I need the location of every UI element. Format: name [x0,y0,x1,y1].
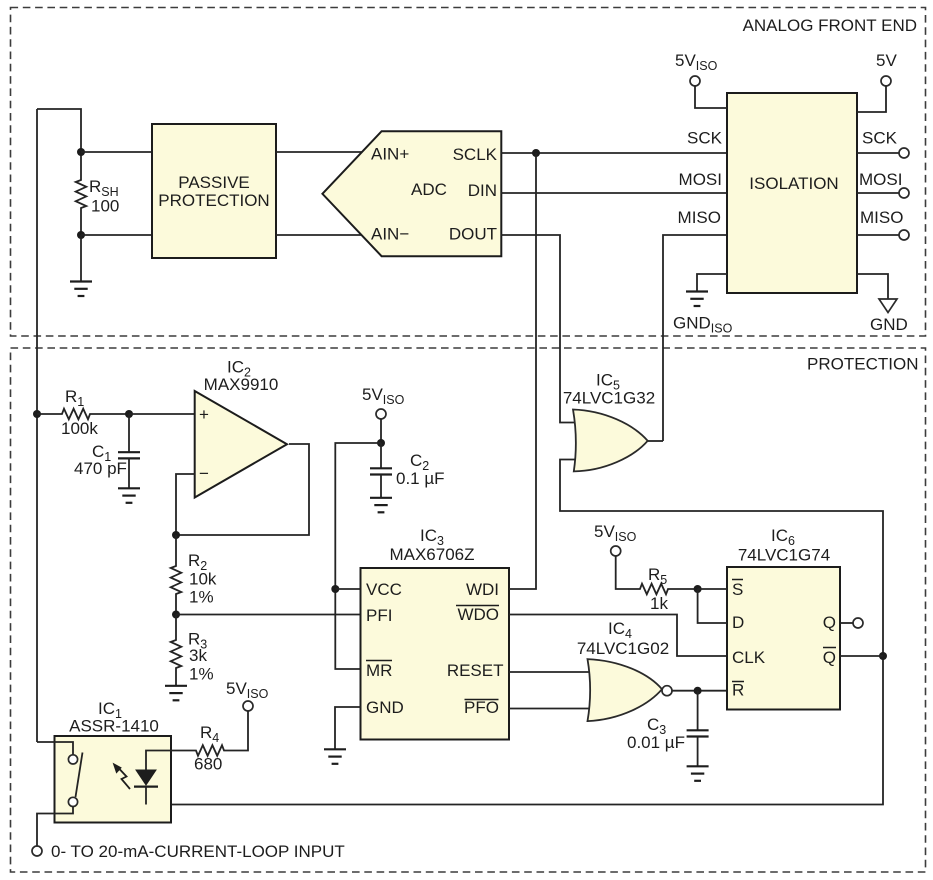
resistor R3 [171,615,182,686]
wire Q output [840,622,853,624]
svg-text:GND: GND [870,315,908,334]
wire to opamp + [129,413,195,415]
svg-text:PFO: PFO [464,698,499,717]
wire IC3 GND [335,707,361,749]
node NOR output [694,687,702,695]
svg-text:74LVC1G74: 74LVC1G74 [738,546,830,565]
capacitor C3 [697,691,699,730]
ground R3 [165,686,187,701]
svg-text:S: S [732,580,743,599]
node 5VISO C2 [377,439,385,447]
wire WDI up to SCLK [509,153,536,589]
svg-text:AIN−: AIN− [371,225,409,244]
op-amp IC2 MAX9910 [195,391,287,498]
svg-text:WDI: WDI [466,580,499,599]
svg-text:RESET: RESET [447,661,504,680]
wire PFO to NOR [509,708,593,710]
node R1 tap [33,410,41,418]
svg-text:PROTECTION: PROTECTION [158,191,269,210]
node feedback [172,531,180,539]
LED light arrow [119,768,131,789]
node R1 C1 opamp [125,410,133,418]
wire PFI [176,614,361,616]
ADC block U-ADC [322,131,501,256]
switch arm [76,753,83,798]
node SCLK WDI junction [532,149,540,157]
terminal current loop input [32,846,42,856]
wire RESET to NOR [509,671,593,673]
ground RSH [70,282,92,297]
wire to D pin [698,589,727,623]
svg-text:DOUT: DOUT [449,225,497,244]
svg-text:ASSR-1410: ASSR-1410 [69,717,159,736]
resistor R1 [37,409,129,420]
wire RSH top to passive protection [81,151,152,153]
resistor RSH [76,152,87,235]
wire NOR output to R pin [672,690,727,692]
node VCC branch [331,585,339,593]
ground GNDISO [686,292,708,307]
svg-text:Q: Q [823,648,836,667]
ground C3 [687,766,709,781]
resistor R2 [171,535,182,615]
svg-text:VCC: VCC [366,580,402,599]
svg-text:3k: 3k [189,646,207,665]
wire left rail into switch [37,742,73,755]
wire AIN- [276,234,362,236]
NOR output bubble [662,686,672,696]
wire left sense loop top [37,109,81,152]
svg-text:MAX9910: MAX9910 [204,375,279,394]
svg-text:100k: 100k [61,419,98,438]
svg-text:5V: 5V [876,51,897,70]
svg-text:SCK: SCK [862,129,898,148]
analog front end dashed frame [11,8,926,337]
svg-text:ADC: ADC [411,180,447,199]
wire MISO out [857,234,899,236]
node RSH top [77,148,85,156]
svg-text:0- TO 20-mA-CURRENT-LOOP INPUT: 0- TO 20-mA-CURRENT-LOOP INPUT [51,842,345,861]
wire left vertical rail [36,109,38,742]
wire VCC [335,588,360,590]
wire to S pin [698,588,727,590]
protection dashed frame [11,348,926,872]
wire 5VISO to isolation [695,86,727,108]
capacitor C1 [128,414,130,452]
svg-text:SCLK: SCLK [453,145,498,164]
node RSH bottom [77,231,85,239]
wire MOSI out [857,192,899,194]
switch contact top [68,755,77,764]
svg-text:WDO: WDO [457,605,499,624]
wire Qbar output [840,655,883,657]
svg-text:0.01 µF: 0.01 µF [627,733,685,752]
wire opamp output loop [176,444,309,535]
svg-text:0.1 µF: 0.1 µF [396,469,445,488]
svg-text:MISO: MISO [678,208,721,227]
svg-text:MOSI: MOSI [679,170,722,189]
wire WDO to CLK [509,615,727,657]
svg-text:MAX6706Z: MAX6706Z [389,545,474,564]
wire AIN+ [276,151,362,153]
ground C2 [370,498,392,513]
ground C1 [118,488,140,503]
wire RSH bottom to ground [80,235,82,281]
svg-text:MR: MR [366,661,392,680]
LED diode of IC1 [136,770,156,785]
svg-text:ISOLATION: ISOLATION [749,174,838,193]
svg-text:−: − [199,464,209,483]
svg-text:AIN+: AIN+ [371,145,409,164]
isolation block [727,93,857,293]
svg-text:+: + [199,405,209,424]
svg-text:680: 680 [194,755,222,774]
svg-text:PROTECTION: PROTECTION [807,355,918,374]
resistor R5 [616,556,698,595]
wire 5VISO to VCC and MR [335,443,381,669]
svg-text:DIN: DIN [468,181,497,200]
IC6 74LVC1G74 block [727,567,840,710]
svg-text:GND: GND [366,698,404,717]
svg-text:CLK: CLK [732,648,766,667]
wire isolation GNDISO [697,274,727,291]
wire DOUT down to OR gate input [501,235,576,423]
svg-text:PFI: PFI [366,606,392,625]
svg-text:100: 100 [91,197,119,216]
svg-text:470 pF: 470 pF [74,459,127,478]
resistor R4 [146,711,248,770]
capacitor C2 [380,443,382,468]
wire SCLK to isolation SCK [501,152,727,154]
wire 5V to isolation [857,86,886,112]
wire switch bottom out [37,806,73,846]
node R5 S D [694,585,702,593]
ground GND triangle [879,299,897,313]
svg-text:1%: 1% [189,588,214,607]
IC1 ASSR-1410 block [55,736,172,823]
wire RSH bottom to passive protection [81,234,152,236]
wire opamp feedback to inverting input [176,474,195,535]
passive protection block [152,124,276,258]
svg-text:74LVC1G32: 74LVC1G32 [563,389,655,408]
svg-text:MOSI: MOSI [859,170,902,189]
ground IC3 [324,749,346,764]
node R2 R3 PFI [172,611,180,619]
node Qbar net [879,652,887,660]
svg-text:74LVC1G02: 74LVC1G02 [577,639,669,658]
svg-text:1k: 1k [650,594,668,613]
svg-text:D: D [732,613,744,632]
svg-text:10k: 10k [189,570,217,589]
wire isolation GND right [857,274,888,299]
wire 5VISO down [380,419,382,443]
svg-text:SCK: SCK [687,129,723,148]
wire LED cathode to Qbar net [145,787,147,805]
svg-text:ANALOG FRONT END: ANALOG FRONT END [743,16,917,35]
wire OR output [648,440,663,442]
IC3 MAX6706Z block [361,568,510,740]
svg-text:PASSIVE: PASSIVE [178,173,250,192]
svg-text:1%: 1% [189,665,214,684]
wire OR lower input from flipflop net [146,460,883,805]
svg-text:MISO: MISO [860,208,903,227]
wire SCK out [857,152,899,154]
svg-text:Q: Q [823,613,836,632]
svg-text:R: R [732,681,744,700]
switch contact bottom [68,797,77,806]
wire DIN to isolation MOSI [501,192,727,194]
wire isolation MISO to OR gate output [663,235,727,441]
